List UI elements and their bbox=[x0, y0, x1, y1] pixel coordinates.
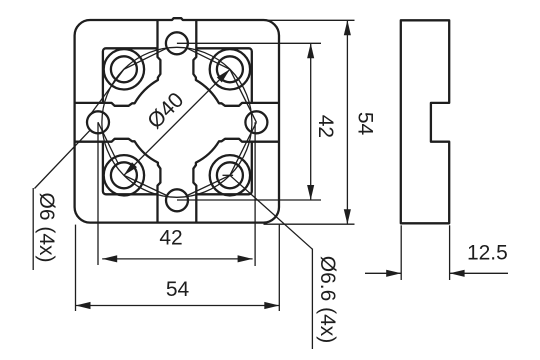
corner hole BR counterbore diam 11 bbox=[210, 155, 250, 195]
12.5 arrow right bbox=[450, 270, 465, 277]
vertical 42 dimension line bbox=[310, 43, 312, 200]
thin chain line segment 5 bbox=[187, 175, 230, 195]
horizontal 42 arrow left bbox=[102, 255, 117, 262]
diam6.6 centre tick bbox=[223, 174, 234, 176]
ext line from mid-bottom hole bbox=[177, 199, 321, 201]
svg-text:54: 54 bbox=[166, 278, 190, 301]
mid-left hole diam 6 bbox=[87, 111, 109, 133]
corner hole TL counterbore diam 11 bbox=[104, 49, 144, 89]
svg-text:54: 54 bbox=[353, 112, 376, 136]
diam40 arrow lower bbox=[124, 162, 137, 175]
diam40 arrow upper bbox=[217, 69, 230, 82]
mid-bottom hole diam 6 bbox=[166, 189, 188, 211]
vertical 54 dimension line bbox=[346, 20, 348, 224]
side view ext line right bbox=[449, 225, 451, 280]
horizontal 54 dimension line bbox=[76, 305, 280, 307]
thin chain line segment 1 bbox=[124, 48, 167, 69]
plate outline (front view, 54x54 square with rounded corners and top tab) bbox=[75, 18, 279, 222]
corner hole TR bore diam 6.6 bbox=[217, 56, 243, 82]
diam6 label shelf line bbox=[32, 188, 34, 270]
corner hole TR counterbore diam 11 bbox=[210, 49, 250, 89]
vertical 42 arrow top bbox=[307, 43, 314, 58]
thin chain line segment 7 bbox=[230, 69, 257, 122]
horizontal 54 arrow left bbox=[76, 302, 91, 309]
ext line from plate top edge bbox=[264, 19, 355, 21]
side view ext line left bbox=[400, 225, 402, 280]
ext line from plate bottom edge bbox=[264, 223, 355, 225]
horizontal 54 arrow right bbox=[264, 302, 279, 309]
12.5 dim line right tail bbox=[450, 272, 508, 274]
thin chain line segment 2 bbox=[90, 69, 124, 114]
ext line from mid-right hole bbox=[254, 122, 256, 266]
diam40 dimension line bbox=[124, 69, 230, 175]
12.5 arrow left bbox=[386, 270, 401, 277]
horizontal 42 dimension line bbox=[102, 258, 252, 260]
svg-text:Ø6.6 (4x): Ø6.6 (4x) bbox=[316, 256, 339, 344]
inner pocket square (42 ref) interrupted at mid-edge channels bbox=[103, 48, 252, 194]
ext line from plate right edge bbox=[278, 225, 280, 311]
centre boss with four arms and corner scallops bbox=[75, 20, 279, 223]
thin chain line segment 4 bbox=[124, 175, 167, 195]
diam6.6 leader line bbox=[230, 175, 313, 249]
svg-text:Ø6 (4x): Ø6 (4x) bbox=[35, 192, 58, 262]
vertical 54 arrow top bbox=[344, 20, 351, 35]
svg-text:12.5: 12.5 bbox=[467, 241, 508, 264]
svg-text:42: 42 bbox=[314, 115, 337, 138]
svg-text:42: 42 bbox=[159, 227, 182, 250]
corner hole TL bore diam 6.6 bbox=[111, 56, 137, 82]
corner hole BR bore diam 6.6 bbox=[217, 162, 243, 188]
thin chain line segment 3 bbox=[98, 122, 118, 163]
thin chain line segment 6 bbox=[230, 122, 257, 175]
ext line from plate left edge bbox=[75, 225, 77, 311]
vertical 54 arrow bottom bbox=[344, 209, 351, 224]
vertical 42 arrow bottom bbox=[307, 185, 314, 200]
mid-right hole diam 6 bbox=[245, 111, 267, 133]
ext line from mid-top hole bbox=[177, 42, 321, 44]
diam6 leader line bbox=[35, 130, 91, 188]
bolt circle diam 40 bbox=[102, 47, 252, 197]
corner hole BL counterbore diam 11 bbox=[104, 155, 144, 195]
diam6.6 label shelf line bbox=[311, 249, 313, 349]
12.5 dim line left tail bbox=[365, 272, 401, 274]
side view outline (12.5 thick plate with groove) bbox=[401, 20, 449, 223]
horizontal 42 arrow right bbox=[238, 255, 253, 262]
ext line from mid-left hole bbox=[97, 122, 99, 265]
mid-top hole diam 6 bbox=[166, 32, 188, 54]
thin chain line segment 8 bbox=[187, 48, 230, 69]
corner hole BL bore diam 6.6 bbox=[111, 162, 137, 188]
